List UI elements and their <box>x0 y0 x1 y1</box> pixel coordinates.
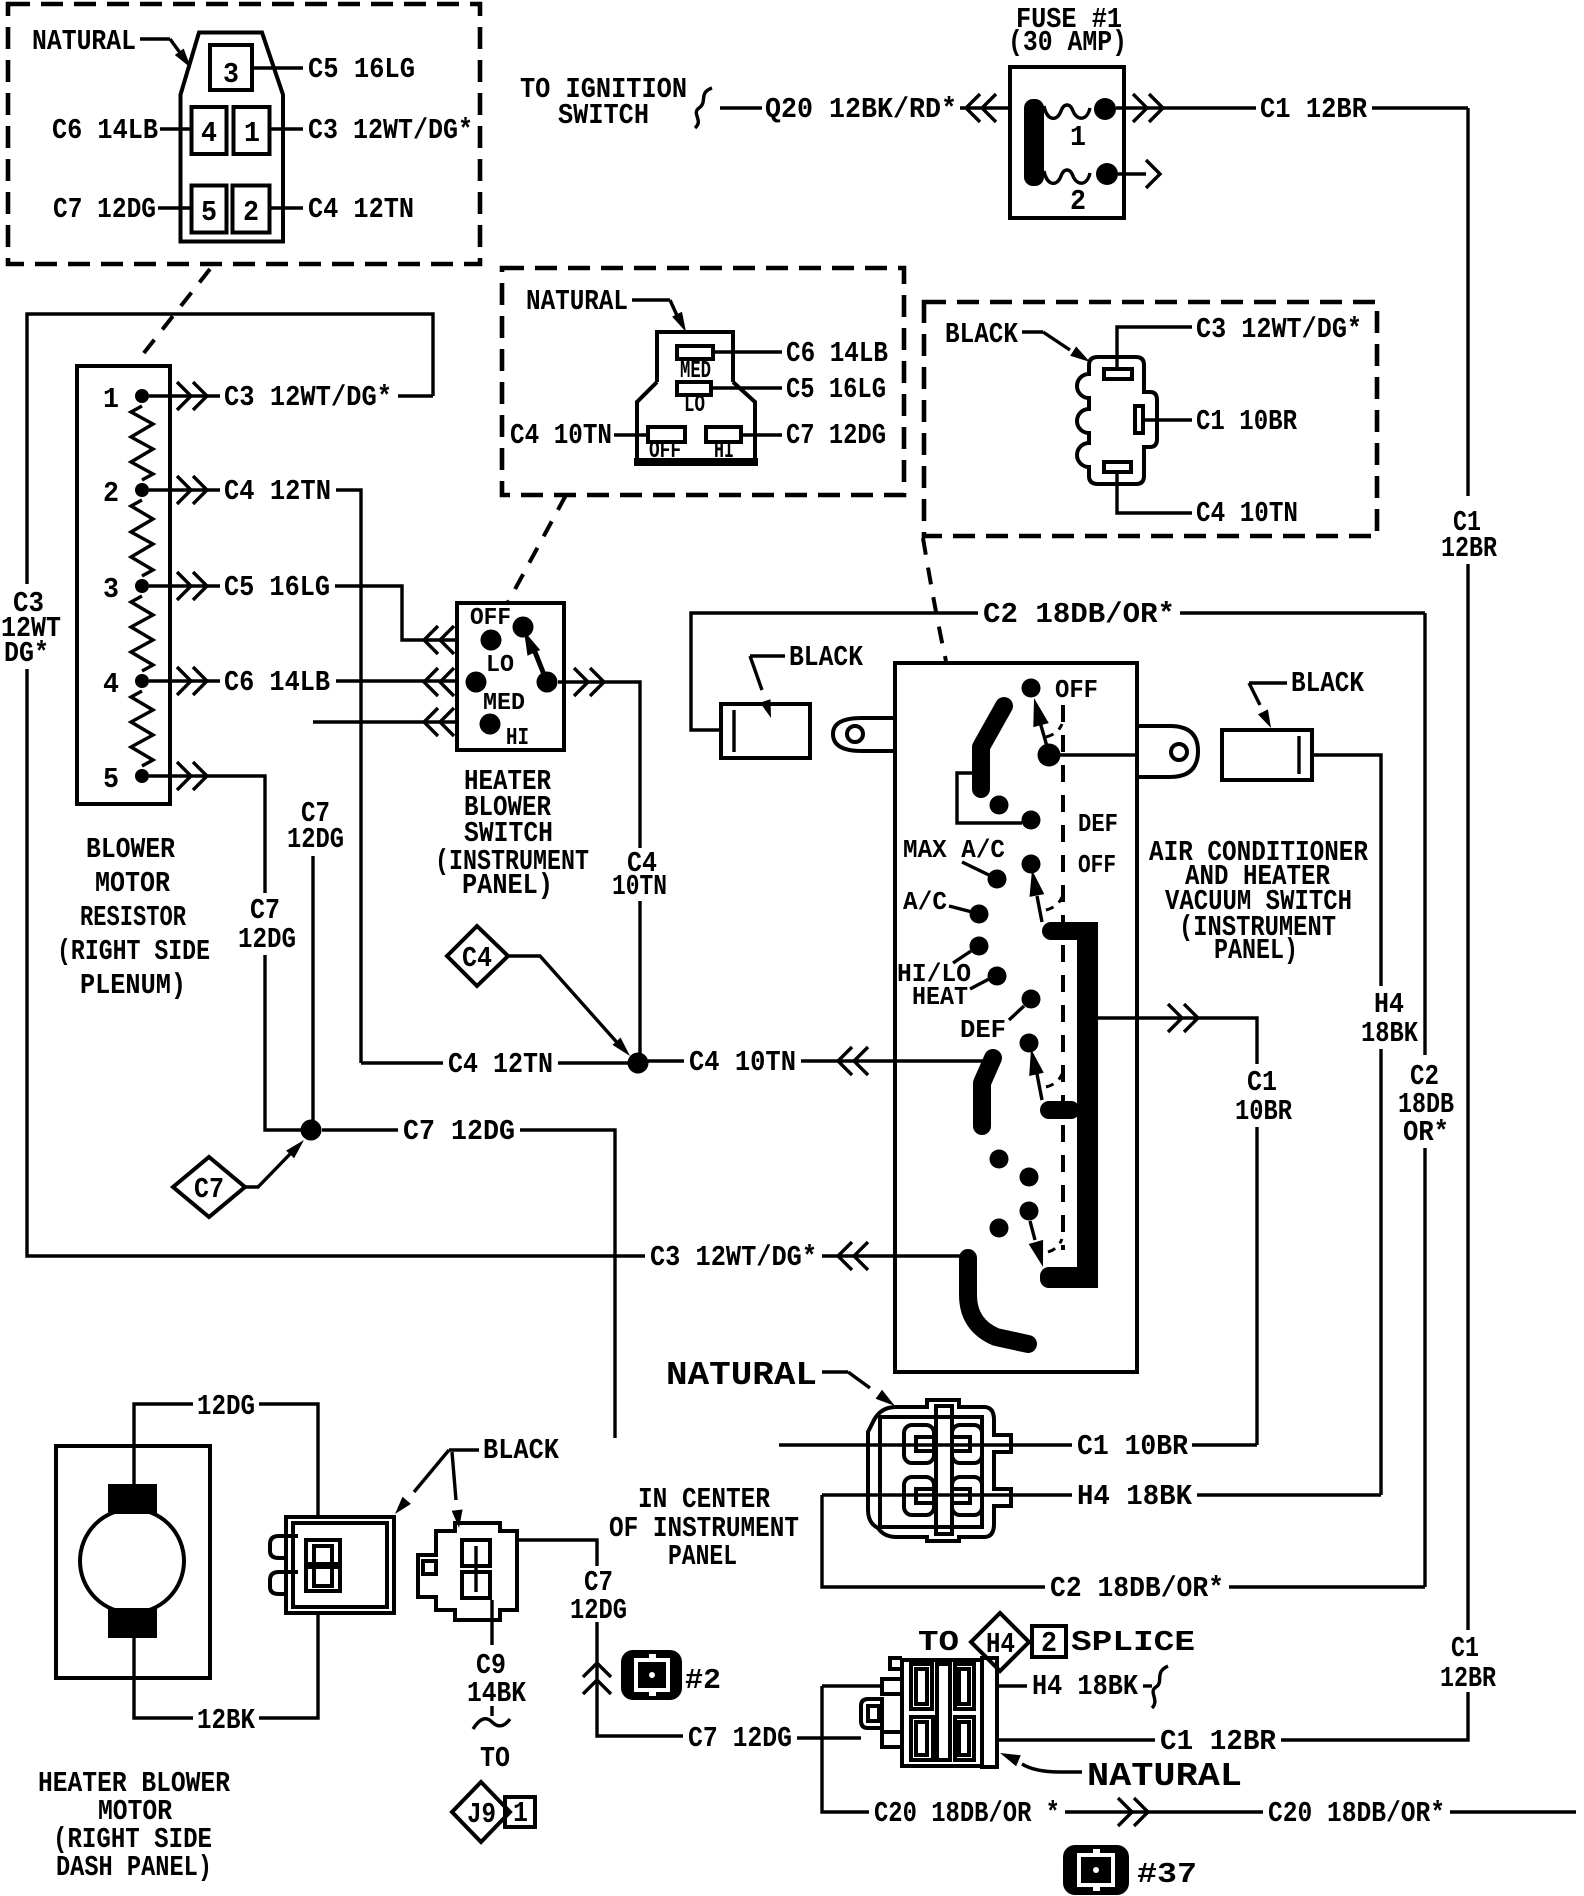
svg-text:MED: MED <box>483 690 525 717</box>
vacuum common port (top) <box>1038 744 1061 767</box>
vacuum switch box <box>895 663 1137 1372</box>
bottom relay connector (natural) <box>861 1658 997 1767</box>
svg-text:1: 1 <box>103 383 119 416</box>
svg-text:2: 2 <box>103 477 119 510</box>
wire C4 12TN row <box>361 1048 628 1081</box>
trace notch outline <box>957 773 1022 823</box>
connector body (5-pin natural) <box>181 33 284 242</box>
pin 3 <box>210 45 252 91</box>
svg-text:DEF: DEF <box>960 1015 1006 1045</box>
motor brush bottom <box>108 1608 157 1638</box>
wire C7 12DG to pin5 <box>53 193 191 226</box>
dashed leader from connector box to resistor <box>136 269 210 363</box>
vacuum lever (top) <box>1033 698 1062 750</box>
svg-text:C20 18DB/OR*: C20 18DB/OR* <box>1268 1797 1445 1830</box>
svg-text:PANEL: PANEL <box>668 1540 737 1573</box>
wire C4 10TN to vacuum switch <box>648 1046 986 1079</box>
label BLACK (top right box) <box>945 318 1090 362</box>
vacuum switch right mounting tab <box>1137 726 1198 777</box>
vacuum lever (bottom) <box>1029 1221 1062 1267</box>
svg-text:C1 10BR: C1 10BR <box>1196 405 1297 438</box>
vacuum port OFF (top) <box>1022 675 1099 705</box>
svg-text:LO: LO <box>684 392 705 419</box>
svg-text:SPLICE: SPLICE <box>1071 1626 1195 1659</box>
junction node C7 <box>301 1120 322 1141</box>
thick trace top elbow <box>981 706 1004 789</box>
resistor element zigzag <box>131 406 153 766</box>
svg-text:12DG: 12DG <box>238 923 296 956</box>
svg-text:SWITCH: SWITCH <box>558 99 649 132</box>
resistor pin 5 <box>103 763 149 796</box>
switch position MED <box>480 690 526 735</box>
svg-text:C4 12TN: C4 12TN <box>308 193 414 226</box>
slot MED <box>677 346 713 385</box>
svg-text:12DG: 12DG <box>197 1390 255 1423</box>
svg-text:MOTOR: MOTOR <box>95 867 171 900</box>
label heater blower motor <box>38 1767 230 1884</box>
svg-text:4: 4 <box>103 668 119 701</box>
left BLACK connector box <box>721 704 810 758</box>
svg-text:BLACK: BLACK <box>483 1434 560 1467</box>
heater blower switch box <box>457 603 564 750</box>
vacuum connector mid slot <box>1135 406 1143 433</box>
wire C3 12WT/DG* to vacuum switch <box>650 1241 968 1274</box>
wire pin5 to C7 12DG vertical <box>149 762 265 893</box>
slot HI <box>706 427 741 465</box>
svg-text:1: 1 <box>513 1797 528 1830</box>
heater blower motor box <box>56 1446 210 1678</box>
svg-text:Q20 12BK/RD*: Q20 12BK/RD* <box>765 93 957 126</box>
svg-text:HEAT: HEAT <box>912 982 968 1012</box>
wire pin4 to C6 14LB / LO <box>149 666 457 699</box>
motor plug connector C9 <box>418 1523 517 1620</box>
label C4 10TN (output) <box>612 847 667 903</box>
pin 5 <box>192 186 227 233</box>
svg-text:C5 16LG: C5 16LG <box>308 53 415 86</box>
dashed leader to heater blower switch <box>507 495 566 604</box>
vacuum ports lower group <box>990 1150 1039 1238</box>
vacuum port (heat) <box>970 967 1007 990</box>
label in center of instrument panel <box>609 1483 799 1573</box>
label NATURAL (instrument panel connector) <box>666 1357 895 1406</box>
label TO IGNITION SWITCH <box>520 73 687 132</box>
wire C7 12DG from junction <box>322 1115 615 1438</box>
svg-text:#2: #2 <box>685 1664 721 1697</box>
svg-text:TO: TO <box>918 1626 959 1659</box>
svg-text:2: 2 <box>1070 185 1086 218</box>
svg-text:C3 12WT/DG*: C3 12WT/DG* <box>1196 313 1362 346</box>
wire far-left vertical to vacuum switch <box>27 669 645 1256</box>
connector diamond C7 <box>173 1140 304 1217</box>
dashed box: blower motor resistor connector detail <box>8 4 480 264</box>
label C3 12WT DG* (far left) <box>1 587 61 670</box>
switch output wire to C4 10TN vertical <box>558 668 640 848</box>
svg-text:1: 1 <box>244 117 260 150</box>
label NATURAL (switch connector) <box>526 285 686 332</box>
svg-text:DASH PANEL): DASH PANEL) <box>56 1851 212 1884</box>
svg-text:C5 16LG: C5 16LG <box>224 571 330 604</box>
motor socket connector (black) <box>270 1517 394 1613</box>
wire pin5 vertical lower <box>265 955 301 1130</box>
svg-text:PANEL): PANEL) <box>1214 934 1298 967</box>
svg-text:12BK: 12BK <box>197 1704 255 1737</box>
svg-text:4: 4 <box>201 117 217 150</box>
wire pin2 to C4 12TN <box>149 475 361 1063</box>
svg-text:C6 14LB: C6 14LB <box>786 337 888 370</box>
fuse wire 1 <box>1044 105 1090 118</box>
svg-text:LO: LO <box>486 652 514 679</box>
wire C1 12BR right vertical (middle) <box>1466 564 1469 1630</box>
wire pin1 to C3 12WT/DG* <box>270 114 473 147</box>
svg-text:C4 12TN: C4 12TN <box>448 1048 553 1081</box>
svg-text:5: 5 <box>201 196 217 229</box>
label NATURAL (resistor connector) <box>32 25 191 68</box>
svg-text:C7 12DG: C7 12DG <box>688 1722 792 1755</box>
label C1 12BR (lower right) <box>1440 1632 1496 1695</box>
wire 12DG from motor <box>134 1390 318 1517</box>
svg-text:BLACK: BLACK <box>789 641 864 674</box>
svg-text:RESISTOR: RESISTOR <box>80 901 186 934</box>
slot LO <box>677 382 711 419</box>
label BLACK (left) <box>750 641 864 718</box>
svg-text:NATURAL: NATURAL <box>32 25 136 58</box>
pin 2 <box>233 186 270 233</box>
svg-text:2: 2 <box>243 196 259 229</box>
svg-text:C1 12BR: C1 12BR <box>1160 1725 1277 1758</box>
label blower motor resistor <box>57 833 210 1002</box>
label C7 12DG (bottom row) <box>688 1722 861 1755</box>
switch connector body <box>634 332 758 466</box>
vacuum port (hi/lo) <box>953 937 989 964</box>
wire HI slot to C7 12DG <box>741 419 886 452</box>
vacuum common port 3 + lever <box>1020 1034 1063 1101</box>
svg-text:C1: C1 <box>1451 1632 1479 1665</box>
junction node C4 <box>628 1053 649 1074</box>
svg-text:C7 12DG: C7 12DG <box>786 419 886 452</box>
svg-text:J9: J9 <box>467 1798 496 1831</box>
motor brush top <box>108 1484 157 1514</box>
label C7 12DG (plug wire) <box>570 1566 627 1627</box>
wire C1 12BR right vertical (top) <box>1466 108 1469 496</box>
svg-text:BLACK: BLACK <box>945 318 1018 351</box>
svg-text:HI: HI <box>506 725 529 752</box>
label C1 10BR (right) <box>1235 1066 1292 1128</box>
vacuum common port 2 + lever <box>1022 855 1063 923</box>
label C2 18DB OR* (right) <box>1398 1060 1454 1149</box>
label DEF (right) <box>1078 809 1118 839</box>
wire C2 18DB/OR* top <box>691 598 1425 730</box>
svg-text:MAX A/C: MAX A/C <box>903 835 1005 865</box>
label C7 12DG (HI wire) <box>287 797 344 856</box>
vacuum port (notch b) <box>1022 811 1041 830</box>
svg-text:14BK: 14BK <box>467 1677 526 1710</box>
wire C9 to splice squiggle <box>473 1706 510 1729</box>
dashed box: vacuum switch connector detail <box>924 302 1377 536</box>
resistor pin 3 <box>103 573 149 606</box>
svg-text:PANEL): PANEL) <box>462 869 553 902</box>
svg-text:OFF: OFF <box>1078 850 1116 880</box>
svg-text:C4 10TN: C4 10TN <box>689 1046 796 1079</box>
wire H4 vertical lower <box>1379 1049 1382 1495</box>
switch position HI <box>506 725 529 752</box>
svg-text:C7: C7 <box>194 1173 224 1206</box>
wire pin3 to C5 16LG / OFF <box>149 571 457 654</box>
thick trace mid-left <box>982 1058 993 1126</box>
wire C7 12DG to HI row <box>313 708 457 736</box>
wire C7 12DG from plug <box>517 1540 597 1566</box>
label HI/LO HEAT <box>897 959 971 1012</box>
svg-text:2: 2 <box>1041 1627 1057 1660</box>
dashed separator line <box>1061 705 1065 1250</box>
wire H4 18BK (relay right) + brace <box>997 1666 1168 1708</box>
svg-text:C2 18DB/OR*: C2 18DB/OR* <box>983 598 1175 631</box>
switch position LO <box>466 652 515 693</box>
wire pin3 to C5 16LG <box>252 53 415 86</box>
label DEF (mid) + port <box>960 990 1041 1046</box>
wire H4 18BK row <box>822 1480 1381 1513</box>
wire Q20 12BK/RD* <box>765 93 957 126</box>
svg-text:3: 3 <box>103 573 119 606</box>
wire C2 18DB/OR* bottom row <box>822 1495 1425 1605</box>
inline connector #37 icon <box>1063 1845 1197 1895</box>
wire bracket to C1 10BR <box>1098 1004 1257 1064</box>
svg-text:C2 18DB/OR*: C2 18DB/OR* <box>1050 1572 1224 1605</box>
svg-text:C1 12BR: C1 12BR <box>1260 93 1368 126</box>
svg-text:C5 16LG: C5 16LG <box>786 373 886 406</box>
wire C2 vertical (upper) <box>1423 613 1426 1055</box>
vacuum switch left mounting tab <box>833 718 895 751</box>
svg-text:HI: HI <box>714 438 734 465</box>
wire HI vertical to junction <box>311 856 314 1122</box>
svg-text:OR*: OR* <box>1403 1116 1449 1149</box>
svg-text:H4 18BK: H4 18BK <box>1032 1670 1139 1703</box>
svg-text:C1 10BR: C1 10BR <box>1077 1430 1189 1463</box>
inline connector chevrons (Q20) <box>960 94 1010 122</box>
svg-text:C7 12DG: C7 12DG <box>403 1115 515 1148</box>
svg-text:C3 12WT/DG*: C3 12WT/DG* <box>308 114 473 147</box>
switch position OFF <box>470 605 511 651</box>
label C1 12BR (upper right) <box>1441 506 1497 565</box>
wire C20 18DB/OR* <box>874 1797 1576 1830</box>
svg-text:C4 10TN: C4 10TN <box>510 419 612 452</box>
svg-text:(RIGHT SIDE: (RIGHT SIDE <box>57 935 210 968</box>
wire C4 10TN to OFF slot <box>510 419 648 452</box>
fuse output stub arrow <box>1118 160 1160 188</box>
svg-text:C20 18DB/OR *: C20 18DB/OR * <box>874 1797 1060 1830</box>
svg-text:BLACK: BLACK <box>1291 667 1364 700</box>
wire bottom slot to C4 10TN <box>1117 472 1298 530</box>
svg-text:A/C: A/C <box>903 887 947 917</box>
fuse terminal 2 <box>1070 163 1118 218</box>
wire top slot to C3 12WT/DG* <box>1117 313 1362 369</box>
svg-text:NATURAL: NATURAL <box>1087 1758 1242 1795</box>
svg-text:(30 AMP): (30 AMP) <box>1008 26 1127 59</box>
wire common to right tab <box>1058 753 1137 756</box>
svg-text:TO: TO <box>480 1742 510 1775</box>
svg-text:C3 12WT/DG*: C3 12WT/DG* <box>224 381 392 414</box>
label A/C + port <box>903 887 989 924</box>
wire loop C3 12WT/DG* top <box>27 314 433 584</box>
slot OFF <box>648 427 685 465</box>
wire C7 12DG into panel connector <box>779 1443 1072 1446</box>
svg-text:12BR: 12BR <box>1440 1662 1496 1695</box>
svg-text:PLENUM): PLENUM) <box>80 969 186 1002</box>
vacuum connector top slot <box>1104 369 1132 379</box>
label BLACK (right) <box>1249 667 1364 728</box>
wire C1 12BR (relay row) <box>997 1692 1468 1758</box>
right BLACK connector box <box>1222 730 1312 780</box>
fuse box <box>1010 67 1124 218</box>
pin 1 <box>234 107 270 154</box>
vacuum connector bottom slot <box>1104 462 1131 472</box>
connector diamond J9 <box>452 1782 535 1842</box>
fuse terminal 1 <box>1070 98 1116 154</box>
connector diamond C4 <box>447 926 630 1056</box>
label TO J9 <box>480 1742 510 1775</box>
svg-text:10BR: 10BR <box>1235 1095 1292 1128</box>
wire C6 14LB to pin4 <box>52 114 191 147</box>
wire pin1 to C3 12WT/DG* <box>149 381 433 414</box>
fuse #1 label <box>1008 3 1127 59</box>
svg-text:12BR: 12BR <box>1441 532 1497 565</box>
svg-text:1: 1 <box>1070 121 1086 154</box>
svg-text:OFF: OFF <box>470 605 511 632</box>
inline connector #2 icon <box>621 1650 721 1700</box>
label OFF (right lower) <box>1078 850 1116 880</box>
svg-text:5: 5 <box>103 763 119 796</box>
switch lever arrow <box>524 631 547 682</box>
resistor pin 2 <box>103 477 149 510</box>
fuse wire 2 <box>1044 170 1090 183</box>
wire C9 14BK <box>490 1600 493 1645</box>
svg-text:12DG: 12DG <box>287 823 344 856</box>
label TO H4 2 SPLICE <box>918 1613 1195 1671</box>
switch output contact <box>537 672 558 693</box>
svg-text:C4 10TN: C4 10TN <box>1196 497 1298 530</box>
wire fuse to C1 12BR <box>1116 93 1468 126</box>
svg-text:OFF: OFF <box>649 438 681 465</box>
svg-text:18BK: 18BK <box>1361 1017 1418 1050</box>
vacuum port (notch a) <box>990 796 1009 815</box>
svg-text:C4: C4 <box>462 942 492 975</box>
pin 4 <box>192 107 227 154</box>
switch common contact <box>513 617 534 638</box>
wire right box to H4 vertical <box>1312 755 1381 986</box>
instrument panel 4-pin connector <box>868 1400 1011 1541</box>
label H4 18BK (right) <box>1361 988 1418 1050</box>
svg-text:H4 18BK: H4 18BK <box>1077 1480 1193 1513</box>
brace squiggle ignition <box>695 88 762 128</box>
wire LO slot to C5 16LG <box>711 373 886 406</box>
fuse element bar <box>1024 99 1044 186</box>
svg-text:BLOWER: BLOWER <box>86 833 176 866</box>
svg-text:C3 12WT/DG*: C3 12WT/DG* <box>650 1241 817 1274</box>
svg-text:3: 3 <box>223 58 239 91</box>
label C7 12DG (pin5 wire) <box>238 894 296 956</box>
blower motor resistor box <box>77 366 170 804</box>
svg-text:C7 12DG: C7 12DG <box>53 193 156 226</box>
wire MED slot to C6 14LB <box>713 337 888 370</box>
wire C1 10BR from panel connector <box>1077 1430 1257 1463</box>
svg-text:OFF: OFF <box>1055 675 1098 705</box>
svg-text:#37: #37 <box>1137 1858 1197 1891</box>
wire pin2 to C4 12TN <box>270 193 414 226</box>
dashed box: heater blower switch connector detail <box>502 268 904 495</box>
wire C1 10BR vertical lower <box>1255 1127 1258 1445</box>
label C9 14BK <box>467 1649 526 1710</box>
resistor pin 1 <box>103 383 149 416</box>
svg-text:NATURAL: NATURAL <box>666 1357 817 1394</box>
svg-text:10TN: 10TN <box>612 870 667 903</box>
svg-text:C4 12TN: C4 12TN <box>224 475 331 508</box>
dashed leader to vacuum switch <box>923 538 946 661</box>
label NATURAL (relay) <box>1000 1753 1242 1795</box>
svg-text:DG*: DG* <box>4 637 49 670</box>
wire C7 12DG vertical with chevrons <box>583 1622 683 1736</box>
svg-text:DEF: DEF <box>1078 809 1118 839</box>
thick trace bottom-left <box>968 1258 1028 1344</box>
svg-text:NATURAL: NATURAL <box>526 285 628 318</box>
resistor pin 4 <box>103 668 149 701</box>
wire H4 18BK (relay left) <box>822 1684 882 1687</box>
motor armature circle <box>80 1509 184 1613</box>
wire mid slot to C1 10BR <box>1143 405 1297 438</box>
label heater blower switch <box>435 765 589 902</box>
wire 12BK from motor <box>134 1613 318 1737</box>
vacuum connector body <box>1077 357 1157 484</box>
svg-text:C6 14LB: C6 14LB <box>224 666 330 699</box>
label BLACK (motor connectors) <box>395 1434 560 1528</box>
black bracket manifold <box>1040 922 1098 1288</box>
svg-text:C6 14LB: C6 14LB <box>52 114 158 147</box>
wire left vertical to C20 <box>822 1686 869 1812</box>
label MAX A/C + port <box>903 835 1007 889</box>
label air conditioner and heater vacuum switch <box>1149 836 1368 967</box>
wire C4 10TN vertical lower <box>638 901 641 1063</box>
wire C2 vertical (lower) <box>1423 1148 1426 1587</box>
